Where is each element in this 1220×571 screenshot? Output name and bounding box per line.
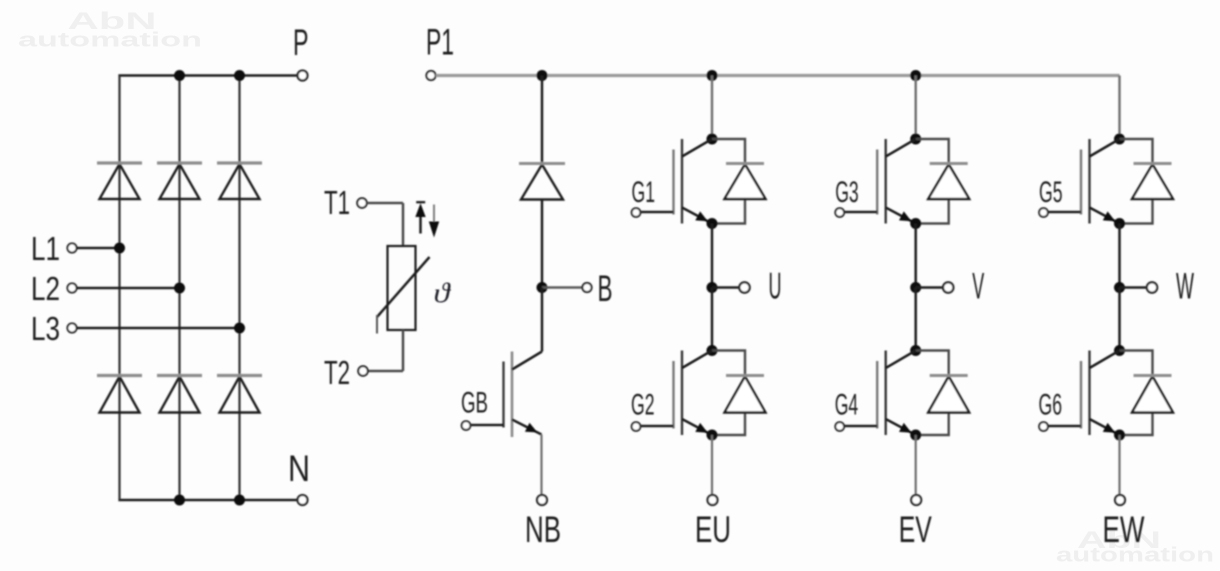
junction L3 / column (234, 323, 245, 334)
terminal G3 (gate) (835, 208, 844, 217)
wire U phase link lower (711, 288, 714, 351)
terminal GB (gate) (462, 421, 471, 430)
transistor Q2 (IGBT) (641, 351, 713, 436)
svg-text:P: P (293, 22, 309, 63)
terminal P1 (426, 71, 435, 80)
diode D13 (free-wheeling) (1132, 376, 1173, 413)
svg-text:T1: T1 (324, 184, 350, 221)
junction top bus / col2 (174, 70, 185, 81)
diode D12 (free-wheeling) (1132, 164, 1173, 200)
junction U bottom emitter (707, 430, 718, 441)
svg-text:EV: EV (899, 509, 932, 550)
terminal W (1147, 282, 1157, 292)
wire free-wheel diode bracket D10 (916, 139, 949, 224)
wire V phase link upper (914, 224, 917, 288)
junction W top emitter (1114, 218, 1125, 229)
terminal L2 (67, 283, 76, 292)
junction L2 / column (174, 283, 185, 294)
wire L3 feed (77, 327, 240, 330)
svg-text:NB: NB (525, 509, 561, 550)
terminal EV (911, 495, 921, 505)
wire node W stub (1120, 286, 1148, 289)
junction U bottom collector (707, 345, 718, 356)
wire V phase link lower (914, 288, 917, 351)
diode D10 (free-wheeling) (928, 164, 969, 200)
terminal G6 (gate) (1039, 422, 1048, 431)
svg-text:G1: G1 (632, 176, 656, 209)
diode D11 (free-wheeling) (928, 376, 969, 413)
svg-text:N: N (288, 448, 310, 489)
wire node U stub (712, 286, 740, 289)
terminal L3 (67, 323, 76, 332)
junction bottom bus / col2 (174, 495, 185, 506)
svg-text:L3: L3 (31, 310, 60, 347)
svg-text:G4: G4 (835, 389, 859, 422)
wire EU stub (711, 435, 713, 495)
wire GB emitter to NB (540, 435, 542, 496)
wire EV stub (915, 435, 917, 495)
node V junction (910, 282, 921, 293)
transistor Q3 (IGBT) (844, 139, 916, 224)
terminal EW (1115, 495, 1125, 505)
wire free-wheel diode bracket D11 (916, 351, 949, 436)
junction L1 / column (114, 243, 125, 254)
terminal NB (537, 495, 547, 505)
svg-text:L2: L2 (31, 270, 60, 307)
wire L1 feed (77, 247, 120, 250)
diode D9 (free-wheeling) (725, 376, 766, 413)
svg-text:ϑ: ϑ (434, 278, 452, 308)
junction W top collector (1114, 134, 1125, 145)
svg-text:P1: P1 (426, 22, 454, 63)
wire free-wheel diode bracket D13 (1120, 351, 1153, 436)
diode D6 (rectifier bottom row) (217, 376, 262, 413)
svg-text:V: V (972, 266, 984, 307)
svg-text:T2: T2 (324, 354, 350, 391)
svg-text:EW: EW (1103, 509, 1145, 550)
node B junction (537, 282, 548, 293)
wire chopper upper (541, 76, 544, 164)
wire U phase link upper (711, 224, 714, 288)
terminal G4 (gate) (835, 422, 844, 431)
transistor Q1 (IGBT) (641, 139, 713, 224)
terminal P (298, 71, 308, 81)
wire EW stub (1118, 435, 1120, 495)
terminal V (943, 282, 953, 292)
wire rail stub V (915, 76, 917, 140)
wire node V stub (916, 286, 944, 289)
terminal U (739, 282, 749, 292)
svg-text:automation: automation (18, 30, 202, 52)
svg-text:W: W (1176, 266, 1194, 307)
svg-text:G6: G6 (1039, 389, 1063, 422)
wire node B stub (542, 286, 583, 289)
diode D4 (rectifier bottom row) (97, 376, 142, 413)
terminal T1 (357, 198, 367, 208)
junction W bottom emitter (1114, 430, 1125, 441)
wire rectifier column 1 (118, 76, 120, 501)
diode D7 (chopper) (519, 164, 565, 200)
svg-text:G3: G3 (835, 176, 859, 209)
terminal G2 (gate) (632, 422, 641, 431)
thermistor RT (NTC) (388, 246, 416, 330)
wire chopper middle (541, 200, 544, 288)
transistor Q6 (IGBT) (1048, 351, 1120, 436)
wire rectifier column 2 (178, 76, 180, 501)
diode D3 (rectifier top row) (217, 163, 262, 199)
junction V bottom emitter (910, 430, 921, 441)
transistor Q5 (IGBT) (1048, 139, 1120, 224)
wire rectifier column 3 (238, 76, 240, 501)
diode D5 (rectifier bottom row) (157, 376, 202, 413)
wire free-wheel diode bracket D12 (1120, 139, 1153, 224)
terminal N (298, 495, 308, 505)
terminal G5 (gate) (1039, 208, 1048, 217)
wire T2 lead (368, 370, 403, 373)
node U junction (707, 282, 718, 293)
junction U top emitter (707, 218, 718, 229)
wire rectifier top bus (118, 74, 297, 76)
diode D1 (rectifier top row) (97, 163, 142, 199)
junction bottom bus / col3 (234, 495, 245, 506)
node W junction (1114, 282, 1125, 293)
svg-text:U: U (769, 266, 782, 307)
wire rail stub U (711, 76, 713, 140)
wire free-wheel diode bracket D9 (712, 351, 745, 436)
junction W bottom collector (1114, 345, 1125, 356)
terminal EU (708, 495, 718, 505)
wire L2 feed (77, 287, 180, 290)
terminal T2 (358, 366, 368, 376)
junction top bus / col3 (234, 70, 245, 81)
svg-text:G5: G5 (1039, 176, 1063, 209)
wire B to GB collector (541, 288, 544, 352)
junction V top emitter (910, 218, 921, 229)
terminal G1 (gate) (632, 208, 641, 217)
junction rail / phase V (910, 70, 921, 81)
svg-text:B: B (598, 268, 613, 309)
wire W phase link lower (1118, 288, 1121, 351)
thermistor temperature arrows (416, 201, 425, 203)
transistor Q4 (IGBT) (844, 351, 916, 436)
junction rail / phase U (707, 70, 718, 81)
terminal B (582, 283, 591, 292)
terminal L1 (67, 243, 76, 252)
junction rail / chopper (537, 70, 548, 81)
svg-text:EU: EU (695, 509, 731, 550)
wire free-wheel diode bracket D8 (712, 139, 745, 224)
diode D8 (free-wheeling) (725, 164, 766, 200)
svg-text:GB: GB (461, 387, 488, 420)
wire W phase link upper (1118, 224, 1121, 288)
wire rail drop to W phase (1118, 76, 1120, 140)
svg-text:L1: L1 (31, 230, 60, 267)
svg-text:G2: G2 (631, 389, 655, 422)
wire T1 lead (367, 202, 403, 205)
wire P1 rail (436, 74, 1120, 77)
diode D2 (rectifier top row) (157, 163, 202, 199)
transistor GB (brake IGBT) (471, 352, 543, 438)
junction V bottom collector (910, 345, 921, 356)
junction U top collector (707, 134, 718, 145)
junction V top collector (910, 134, 921, 145)
wire rectifier bottom bus (118, 499, 297, 501)
